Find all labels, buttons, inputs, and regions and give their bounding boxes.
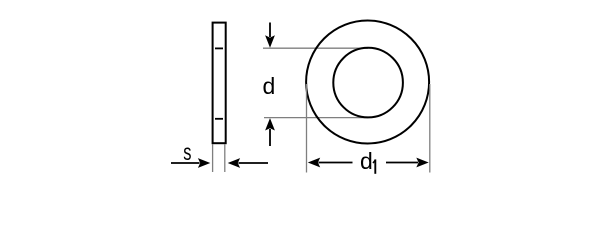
washer outer circle xyxy=(306,21,429,144)
extension line s left xyxy=(212,144,214,172)
arrow d down xyxy=(269,23,271,38)
dimension line d1 right segment xyxy=(386,162,418,164)
arrowhead d1 left-pointing xyxy=(308,158,320,168)
svg-text:d: d xyxy=(360,148,373,174)
hole tick bottom xyxy=(215,118,223,120)
arrowhead d1 right-pointing xyxy=(416,158,428,168)
arrow d up xyxy=(269,129,271,146)
extension line s right xyxy=(224,144,226,172)
washer inner circle xyxy=(333,48,403,118)
dimension line s right segment xyxy=(239,162,269,164)
extension line d top xyxy=(263,47,368,49)
extension line d1 left xyxy=(306,84,308,173)
washer side view outline xyxy=(213,23,226,144)
extension line d bottom xyxy=(264,117,368,119)
hole tick top xyxy=(215,47,223,49)
extension line d1 right xyxy=(429,84,431,173)
arrowhead s right-pointing xyxy=(198,158,210,168)
svg-text:d: d xyxy=(263,73,276,99)
arrowhead s left-pointing xyxy=(228,158,240,168)
dimension line s left segment xyxy=(171,162,200,164)
dimension line d1 left segment xyxy=(319,162,353,164)
svg-text:s: s xyxy=(183,139,191,165)
